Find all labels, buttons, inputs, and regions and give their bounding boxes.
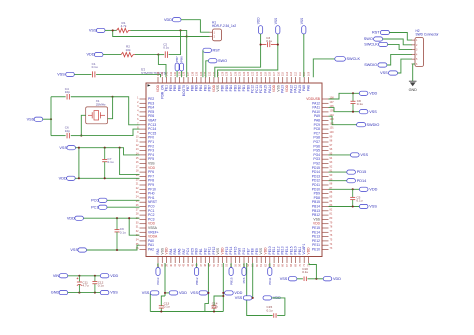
- svg-text:79: 79: [330, 221, 333, 224]
- junction: [222, 292, 224, 294]
- junction: [78, 292, 80, 294]
- svg-text:65: 65: [277, 263, 280, 266]
- svg-text:15: 15: [136, 157, 139, 160]
- wire U1 to VSS (right): [329, 108, 360, 112]
- wire PC1 to U1: [107, 206, 140, 208]
- port PD14: [347, 179, 356, 183]
- svg-text:VDD: VDD: [179, 291, 187, 295]
- wire VDD_b riser: [222, 263, 224, 312]
- wire VSS rail drop: [120, 148, 140, 175]
- svg-text:111: 111: [299, 72, 302, 76]
- svg-text:13: 13: [136, 148, 139, 151]
- svg-text:0.1u: 0.1u: [108, 160, 114, 164]
- wire C6 to OSC2 node: [71, 135, 82, 137]
- svg-text:VSS: VSS: [235, 296, 243, 300]
- svg-text:PA8: PA8: [307, 85, 311, 91]
- wire VDD rail: [75, 177, 139, 179]
- svg-text:18: 18: [136, 170, 139, 173]
- svg-text:GND: GND: [409, 88, 418, 92]
- svg-text:77: 77: [330, 230, 333, 233]
- svg-text:33: 33: [136, 234, 139, 237]
- wire SWDIO to H2 pin4: [387, 54, 412, 65]
- connector H1: [213, 29, 222, 41]
- port VDD (power): [100, 274, 109, 278]
- junction: [78, 147, 80, 149]
- wire U1 to PD14: [329, 180, 347, 182]
- port SWDIO (near U1): [357, 123, 366, 127]
- capacitor C4: [66, 94, 68, 100]
- wire H2 pin6 to GND: [413, 64, 415, 81]
- junction: [80, 135, 82, 137]
- wire U1 to VDD3 (right): [329, 188, 360, 190]
- port VSS (top left): [96, 28, 105, 32]
- junction: [207, 292, 209, 294]
- svg-text:139: 139: [178, 71, 181, 76]
- svg-text:46: 46: [196, 263, 199, 266]
- wire VDD analog rail: [83, 217, 139, 219]
- svg-text:28: 28: [136, 213, 139, 216]
- svg-text:143: 143: [161, 71, 164, 76]
- junction: [116, 249, 118, 251]
- port VSS (vertical, top): [276, 26, 280, 34]
- wire U1 to SWDIO: [329, 116, 357, 125]
- svg-text:PB15: PB15: [229, 277, 233, 285]
- svg-text:126: 126: [234, 71, 237, 76]
- wire node riser to U1 pin: [158, 55, 166, 78]
- U1 top pins 109-144 with numbers and names: [156, 71, 311, 99]
- svg-text:112: 112: [295, 71, 298, 76]
- svg-text:RST: RST: [213, 48, 221, 52]
- wire VDD flag to U1 VDD pin: [215, 34, 261, 77]
- port SWCLK (near H2): [379, 42, 388, 46]
- svg-text:23: 23: [136, 191, 139, 194]
- svg-text:VSS: VSS: [369, 110, 377, 114]
- svg-text:82: 82: [330, 208, 333, 211]
- svg-text:136: 136: [191, 71, 194, 76]
- svg-text:10p: 10p: [65, 90, 70, 94]
- junction: [119, 147, 121, 149]
- svg-text:38: 38: [161, 263, 164, 266]
- svg-text:HDR-F-2.54_1x2: HDR-F-2.54_1x2: [212, 24, 236, 28]
- svg-text:GND: GND: [51, 291, 60, 295]
- svg-text:121: 121: [256, 71, 259, 76]
- svg-text:84: 84: [330, 200, 333, 203]
- svg-text:VSS: VSS: [70, 248, 78, 252]
- svg-text:VDD: VDD: [307, 247, 311, 255]
- svg-text:88: 88: [330, 183, 333, 186]
- svg-text:131: 131: [213, 71, 216, 76]
- svg-text:51: 51: [217, 263, 220, 266]
- svg-text:124: 124: [243, 71, 246, 76]
- svg-text:60: 60: [256, 263, 259, 266]
- svg-text:0.1u: 0.1u: [92, 65, 98, 69]
- svg-text:VSS: VSS: [380, 71, 388, 75]
- svg-text:3: 3: [137, 105, 139, 108]
- wire C15 right: [277, 315, 285, 317]
- wire VDD to R2: [103, 54, 121, 56]
- svg-text:4.7u: 4.7u: [82, 284, 88, 288]
- svg-text:129: 129: [221, 71, 224, 76]
- svg-text:98: 98: [330, 140, 333, 143]
- connector H2: [415, 38, 424, 67]
- wire U1 to PD15: [329, 171, 347, 173]
- port VDD (bottom c): [263, 296, 272, 300]
- wire node to C2: [158, 54, 164, 56]
- svg-text:99: 99: [330, 135, 333, 138]
- junction: [315, 278, 317, 280]
- svg-text:PB6: PB6: [180, 56, 184, 62]
- svg-text:VSS: VSS: [57, 73, 65, 77]
- svg-text:138: 138: [183, 71, 186, 76]
- svg-text:SWD Connector: SWD Connector: [416, 32, 440, 36]
- port VSS (C1 row): [66, 72, 75, 76]
- svg-text:VSS: VSS: [360, 153, 368, 157]
- svg-text:123: 123: [247, 71, 250, 76]
- wire VSS branch below R1: [113, 30, 187, 36]
- wire VDDA branch: [129, 218, 139, 235]
- svg-text:47: 47: [200, 263, 203, 266]
- wire node riser to U1: [309, 263, 316, 279]
- svg-text:PB7: PB7: [175, 56, 179, 62]
- wire X1 left pin down: [81, 115, 85, 135]
- svg-text:135: 135: [196, 71, 199, 76]
- svg-text:30: 30: [136, 221, 139, 224]
- svg-text:SWO: SWO: [218, 59, 227, 63]
- wire GND rail: [68, 292, 101, 294]
- junction: [112, 96, 114, 98]
- junction: [112, 29, 114, 31]
- svg-text:0.1u: 0.1u: [356, 199, 362, 203]
- svg-text:VDD: VDD: [86, 53, 94, 57]
- net port PD11 (vertical flag, bottom): [269, 263, 271, 268]
- svg-text:PD11: PD11: [268, 277, 272, 285]
- wire OSC node to U1: [113, 97, 140, 125]
- port SWDIO (near H2): [378, 63, 387, 67]
- wire PC0 to U1: [107, 199, 140, 201]
- svg-text:55: 55: [234, 263, 237, 266]
- svg-text:0.1u: 0.1u: [357, 102, 363, 106]
- wire VSS to R1: [105, 29, 117, 31]
- port VDD (top): [172, 18, 181, 22]
- junction: [104, 177, 106, 179]
- wire SWCLK to H2 pin3: [388, 44, 412, 49]
- junction: [160, 310, 162, 312]
- junction: [352, 92, 354, 94]
- svg-text:12: 12: [136, 144, 139, 147]
- U1 left pins 1-36 with numbers and names: [136, 97, 159, 252]
- svg-text:0.1u: 0.1u: [266, 39, 272, 43]
- junction: [186, 35, 188, 37]
- svg-text:10: 10: [136, 135, 139, 138]
- svg-text:97: 97: [330, 144, 333, 147]
- wire C1 to U1: [96, 74, 160, 77]
- capacitor C6: [66, 133, 68, 139]
- junction: [260, 44, 262, 46]
- svg-text:125: 125: [239, 71, 242, 76]
- svg-text:VSS: VSS: [89, 29, 97, 33]
- svg-text:115: 115: [282, 71, 285, 76]
- svg-text:69: 69: [295, 263, 298, 266]
- port VSS (bottom d): [288, 277, 297, 281]
- svg-text:92: 92: [330, 165, 333, 168]
- port VDD (right low): [359, 187, 368, 191]
- svg-text:0.1u: 0.1u: [164, 305, 170, 309]
- svg-text:39: 39: [166, 263, 169, 266]
- wire VSS flag riser: [303, 34, 305, 77]
- wire BOOT0 riser to U1: [186, 37, 188, 78]
- svg-text:74: 74: [330, 243, 333, 246]
- wire cluster C riser: [247, 263, 273, 316]
- junction: [78, 275, 80, 277]
- svg-text:49: 49: [209, 263, 212, 266]
- svg-text:4.7k: 4.7k: [121, 24, 127, 28]
- svg-text:4: 4: [137, 110, 139, 113]
- svg-text:VSS: VSS: [280, 277, 288, 281]
- port PC1: [98, 205, 107, 209]
- wire to C4: [51, 96, 66, 98]
- svg-text:42: 42: [178, 263, 181, 266]
- svg-text:86: 86: [330, 191, 333, 194]
- svg-text:94: 94: [330, 157, 333, 160]
- svg-text:PC6: PC6: [242, 277, 246, 283]
- svg-text:SWDIO: SWDIO: [364, 63, 377, 67]
- junction: [128, 217, 130, 219]
- svg-text:75: 75: [330, 239, 333, 242]
- wire VSS flag to U1 VSS pin: [218, 34, 278, 77]
- svg-text:21: 21: [136, 183, 139, 186]
- svg-text:96: 96: [330, 148, 333, 151]
- svg-text:66: 66: [282, 263, 285, 266]
- svg-text:132: 132: [209, 71, 212, 76]
- wire RST to H2 pin1: [389, 33, 412, 41]
- svg-text:40: 40: [170, 263, 173, 266]
- port RST (near H2): [380, 30, 389, 34]
- wire OSC2 node to U1: [81, 129, 139, 136]
- svg-text:31: 31: [136, 226, 139, 229]
- svg-text:43: 43: [183, 263, 186, 266]
- net port PB15 (vertical flag, bottom): [230, 263, 232, 268]
- wire R2 to node: [135, 54, 158, 56]
- junction: [50, 118, 52, 120]
- svg-text:64: 64: [273, 263, 276, 266]
- junction: [213, 310, 215, 312]
- wire RST riser: [202, 50, 204, 77]
- port SWO (near U1): [208, 59, 217, 63]
- junction: [222, 295, 224, 297]
- svg-text:VIN: VIN: [53, 274, 60, 278]
- svg-text:116: 116: [277, 71, 280, 76]
- U1 bottom pins 37-72 with numbers and names: [156, 244, 311, 267]
- svg-text:25MHz: 25MHz: [96, 102, 106, 106]
- capacitor C3 bridge: [261, 44, 267, 46]
- svg-text:24: 24: [136, 196, 139, 199]
- svg-text:SWCLK: SWCLK: [347, 57, 361, 61]
- svg-text:100: 100: [330, 131, 335, 134]
- IC U1 STM32 microcontroller body: [146, 83, 322, 257]
- wire SWCLK from U1: [313, 59, 335, 77]
- svg-text:27: 27: [136, 208, 139, 211]
- wire U1 to VSS3 (right): [329, 206, 360, 208]
- svg-text:114: 114: [286, 71, 289, 76]
- port VSS (right low): [359, 204, 368, 208]
- svg-text:VDD: VDD: [369, 91, 377, 95]
- port VDD (bottom b): [225, 291, 234, 295]
- wire VSS_b riser: [205, 263, 209, 312]
- port VSS (vertical, top right): [302, 26, 306, 34]
- port VDD (right): [359, 91, 368, 95]
- capacitor C7: [104, 148, 106, 160]
- junction: [164, 292, 166, 294]
- net port PC6 (vertical flag, bottom): [243, 263, 245, 268]
- svg-text:137: 137: [187, 71, 190, 76]
- svg-text:0.1u: 0.1u: [212, 305, 218, 309]
- svg-text:VSS: VSS: [110, 291, 118, 295]
- svg-text:VSS: VSS: [274, 18, 278, 24]
- capacitor C2: [164, 51, 166, 58]
- svg-text:44: 44: [187, 263, 190, 266]
- wire VSS analog: [87, 245, 140, 250]
- svg-text:PE10: PE10: [312, 248, 320, 252]
- svg-text:127: 127: [230, 71, 233, 76]
- svg-text:RST: RST: [372, 31, 380, 35]
- wire VIN rail: [68, 275, 101, 277]
- svg-text:PC1: PC1: [91, 205, 98, 209]
- svg-text:10k: 10k: [126, 48, 131, 52]
- wire R1 to BOOT node: [131, 30, 187, 36]
- port SWCLK (near U1): [335, 57, 346, 61]
- svg-text:2: 2: [137, 101, 139, 104]
- wire U1 to VDD (right): [329, 93, 360, 99]
- svg-text:107: 107: [330, 101, 335, 104]
- svg-text:VSS: VSS: [27, 117, 35, 121]
- port VDD (bottom a): [169, 291, 178, 295]
- capacitor C11 (polarized): [78, 276, 80, 282]
- svg-text:128: 128: [226, 71, 229, 76]
- svg-text:144: 144: [157, 71, 160, 76]
- svg-text:118: 118: [269, 71, 272, 76]
- svg-text:85: 85: [330, 196, 333, 199]
- junction: [352, 188, 354, 190]
- svg-text:90: 90: [330, 174, 333, 177]
- svg-text:VSS: VSS: [369, 205, 377, 209]
- port VSS (left rail): [67, 146, 76, 150]
- capacitor C1: [92, 71, 94, 77]
- port VSS (crystal): [34, 117, 43, 121]
- capacitor C15: [273, 313, 275, 318]
- wire BOOT node to H1 pin2: [187, 36, 210, 38]
- capacitor C5: [352, 189, 354, 197]
- svg-text:141: 141: [170, 71, 173, 76]
- svg-text:0.1u: 0.1u: [120, 230, 126, 234]
- svg-text:VSS: VSS: [300, 18, 304, 24]
- port VDD (R2 row): [94, 53, 103, 57]
- svg-text:PA13: PA13: [156, 277, 160, 284]
- svg-text:101: 101: [330, 127, 335, 130]
- svg-text:VDD: VDD: [369, 187, 377, 191]
- svg-text:10p: 10p: [65, 129, 70, 133]
- wire U1 to VSS2 (right): [329, 154, 351, 156]
- svg-text:PD15: PD15: [357, 170, 367, 174]
- wire rail link: [78, 148, 80, 179]
- svg-text:76: 76: [330, 234, 333, 237]
- port VSS (right mid): [351, 153, 360, 157]
- svg-text:22: 22: [136, 187, 139, 190]
- wire VSS_a riser: [149, 293, 151, 312]
- svg-text:119: 119: [264, 71, 267, 76]
- port VDD (left rail): [67, 176, 76, 180]
- svg-text:1: 1: [137, 97, 139, 100]
- svg-text:120: 120: [260, 71, 263, 76]
- wire VSS to crystal rail: [43, 118, 51, 120]
- wire VSS to C1: [74, 73, 91, 75]
- svg-text:0.1u: 0.1u: [163, 46, 169, 50]
- net port PA13 (vertical flag, bottom): [157, 263, 159, 268]
- svg-text:0.1u: 0.1u: [98, 284, 104, 288]
- svg-text:SWDIO: SWDIO: [367, 123, 380, 127]
- junction: [94, 275, 96, 277]
- svg-text:122: 122: [252, 71, 255, 76]
- wire OSC node down to X1: [108, 97, 113, 119]
- svg-text:17: 17: [136, 165, 139, 168]
- svg-text:PB12: PB12: [195, 277, 199, 285]
- svg-text:0.1u: 0.1u: [267, 308, 273, 312]
- svg-text:SWCLK: SWCLK: [364, 43, 378, 47]
- svg-text:VDD: VDD: [164, 18, 172, 22]
- wire VSS rail: [76, 148, 140, 155]
- svg-text:61: 61: [260, 263, 263, 266]
- svg-text:11: 11: [136, 140, 139, 143]
- port VIN: [59, 274, 68, 278]
- wire rail to C6: [51, 135, 66, 137]
- svg-text:41: 41: [174, 263, 177, 266]
- wire bottom rail (VSS): [150, 311, 223, 313]
- svg-text:SWO: SWO: [364, 37, 373, 41]
- capacitor C14: [213, 308, 215, 312]
- port VSS (power): [100, 291, 109, 295]
- wire crystal left vertical: [50, 97, 52, 136]
- junction: [352, 205, 354, 207]
- U1 right pins 73-108 with numbers and names: [306, 97, 334, 252]
- port GND: [59, 291, 68, 295]
- svg-text:34: 34: [136, 239, 139, 242]
- capacitor C10: [303, 277, 305, 282]
- port VDD (vertical, top): [259, 26, 263, 34]
- svg-text:53: 53: [226, 263, 229, 266]
- svg-text:6: 6: [137, 118, 139, 121]
- wire C10 to node: [308, 278, 324, 280]
- wire VSS_d to C10: [297, 278, 303, 280]
- svg-text:PA2: PA2: [148, 248, 154, 252]
- junction: [104, 147, 106, 149]
- svg-text:VDD: VDD: [59, 176, 67, 180]
- port VDD (bottom d): [323, 277, 332, 281]
- svg-text:16: 16: [136, 161, 139, 164]
- wire C4 to OSC node: [71, 96, 113, 98]
- wire C2 to R1 net: [169, 30, 181, 54]
- wire VDD to H1 pin1: [181, 20, 210, 33]
- svg-text:58: 58: [247, 263, 250, 266]
- svg-text:45: 45: [191, 263, 194, 266]
- port VSS (right): [359, 110, 368, 114]
- svg-text:VDD: VDD: [234, 291, 242, 295]
- port VSS (bottom b): [199, 291, 208, 295]
- port RST (near U1): [203, 48, 212, 52]
- net port PB7 (vertical flag): [175, 63, 179, 71]
- svg-text:PD14: PD14: [357, 179, 367, 183]
- svg-text:9: 9: [137, 131, 139, 134]
- svg-text:PC0: PC0: [91, 198, 98, 202]
- capacitor C9: [116, 218, 118, 229]
